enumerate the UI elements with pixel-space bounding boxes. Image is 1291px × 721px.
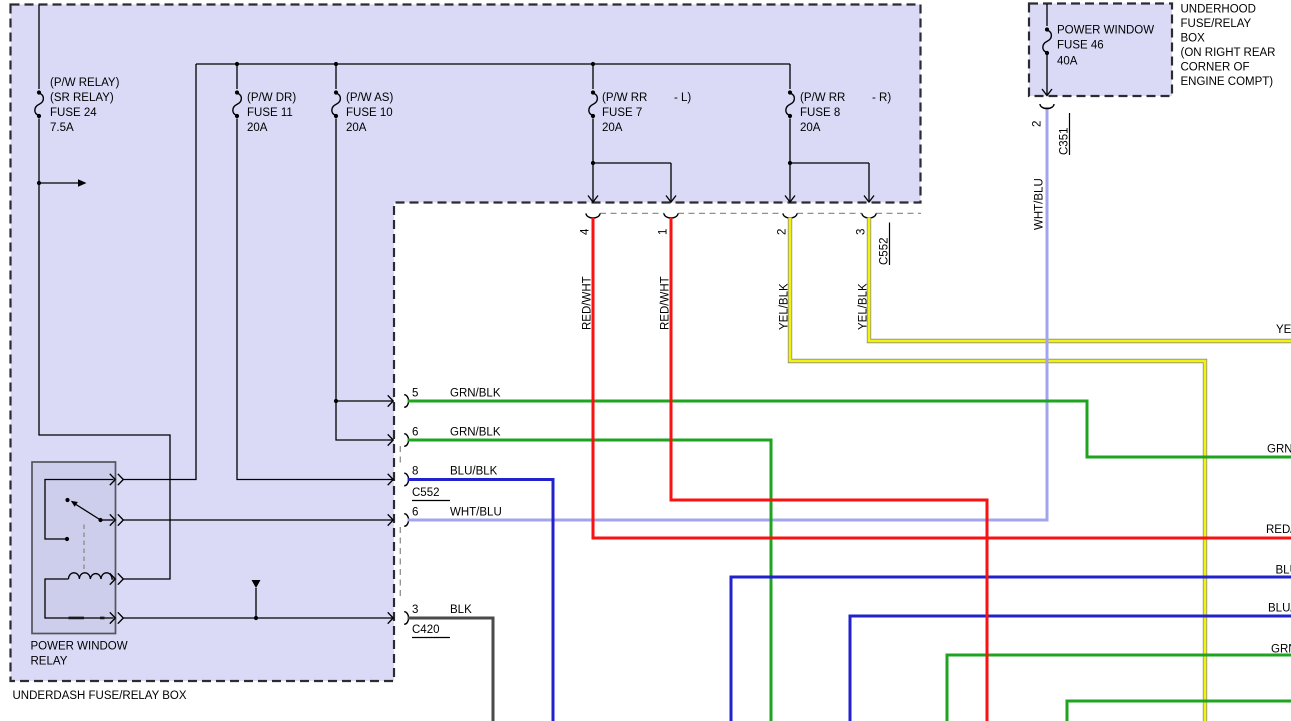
- wire fuse11 top: [236, 64, 238, 89]
- svg-text:POWER WINDOW: POWER WINDOW: [1057, 25, 1154, 37]
- relay contact node (upper): [65, 498, 69, 502]
- svg-text:GRN/BLK: GRN/BLK: [450, 388, 501, 400]
- svg-text:3: 3: [412, 604, 418, 616]
- wire coil return to pin4: [45, 579, 114, 618]
- svg-text:C552: C552: [879, 238, 891, 266]
- svg-text:(P/W RR: (P/W RR: [800, 92, 845, 104]
- relay pin chevrons: [110, 474, 116, 485]
- svg-text:YEL/BLK: YEL/BLK: [1276, 324, 1291, 336]
- svg-text:FUSE 8: FUSE 8: [800, 107, 840, 119]
- underhood fuse/relay box (dashed enclosure): [1029, 4, 1172, 97]
- wire from fuse 24 top: [38, 5, 40, 90]
- svg-text:WHT/BLU: WHT/BLU: [1034, 178, 1046, 230]
- svg-text:- L): - L): [674, 92, 691, 104]
- underdash fuse/relay box (L-shaped dashed enclosure): [11, 5, 921, 682]
- arrows at box bottom edge: [588, 196, 598, 203]
- wire BLU (lower 1): [731, 577, 1291, 721]
- svg-text:FUSE 24: FUSE 24: [50, 107, 97, 119]
- svg-text:POWER WINDOW: POWER WINDOW: [31, 641, 128, 653]
- wire fuse24 down, to coil via right-down: [39, 119, 170, 580]
- svg-text:6: 6: [412, 507, 418, 519]
- connector pin arcs (left): [404, 395, 408, 408]
- node fuse10 branch to pin5: [334, 399, 338, 403]
- node fuse8 branch: [788, 161, 792, 165]
- node junction fuse24 branch: [37, 181, 41, 185]
- wire fuse7 branch to pin1 column: [593, 163, 671, 201]
- relay contact node (lower): [65, 537, 69, 541]
- svg-text:FUSE/RELAY: FUSE/RELAY: [1181, 18, 1252, 30]
- relay switch arm: [76, 505, 101, 521]
- svg-text:3: 3: [856, 229, 868, 235]
- svg-text:FUSE 10: FUSE 10: [346, 107, 393, 119]
- svg-text:20A: 20A: [247, 122, 268, 134]
- wire GRN/BLK pin6: [408, 440, 771, 721]
- svg-text:6: 6: [412, 427, 418, 439]
- svg-text:BLU/BLK: BLU/BLK: [450, 466, 498, 478]
- connector C351 arc: [1040, 104, 1054, 109]
- svg-text:(SR RELAY): (SR RELAY): [50, 92, 114, 104]
- connector pin arcs (top): [586, 213, 600, 218]
- svg-text:FUSE 46: FUSE 46: [1057, 40, 1104, 52]
- svg-text:YEL/BLK: YEL/BLK: [858, 283, 870, 330]
- relay coil L1: [69, 573, 114, 579]
- wire relay pin2 to connector WHT/BLU pin: [124, 519, 393, 521]
- svg-text:(ON RIGHT REAR: (ON RIGHT REAR: [1181, 47, 1276, 59]
- svg-text:C552: C552: [412, 487, 440, 499]
- wire fuse8 down to connector: [789, 119, 791, 201]
- svg-text:(P/W RR: (P/W RR: [602, 92, 647, 104]
- relay internal: contact C-wire: [45, 480, 114, 540]
- fuse F46 wire top: [1046, 4, 1048, 26]
- wire fuse7 top: [592, 64, 594, 89]
- ground reference triangle: [252, 580, 261, 588]
- svg-text:ENGINE COMPT): ENGINE COMPT): [1181, 76, 1274, 88]
- wire WHT/BLU: [408, 107, 1047, 520]
- wire fuse10 to pin 6: [336, 119, 392, 441]
- svg-text:RED/WHT: RED/WHT: [660, 276, 672, 330]
- svg-text:UNDERDASH FUSE/RELAY BOX: UNDERDASH FUSE/RELAY BOX: [13, 690, 187, 702]
- fuse F11 symbol: [233, 90, 242, 118]
- wire fuse10 top: [335, 64, 337, 89]
- svg-text:BOX: BOX: [1181, 33, 1206, 45]
- wire fuse8 top: [789, 64, 791, 89]
- fuse F8 symbol: [786, 90, 795, 118]
- wire BLU/BLK pin8: [408, 480, 553, 721]
- wire branch arrow to other circuit: [39, 182, 79, 184]
- fuse F46 symbol: [1043, 27, 1052, 55]
- wire fuse11 to pin 8: [237, 119, 392, 480]
- power window relay box: [32, 462, 116, 634]
- box edge chevrons at left connector: [388, 395, 394, 406]
- relay common node: [98, 518, 102, 522]
- svg-text:BLU/BLK: BLU/BLK: [1276, 565, 1291, 577]
- svg-text:CORNER OF: CORNER OF: [1181, 62, 1250, 74]
- wire BLU (lower 2): [850, 616, 1291, 721]
- node bus-fuse10: [334, 62, 338, 66]
- wire top bus: [196, 63, 790, 65]
- svg-text:WHT/BLU: WHT/BLU: [450, 507, 502, 519]
- connector C552 top dashed line: [600, 212, 921, 214]
- svg-text:GRN/BLK: GRN/BLK: [1267, 444, 1291, 456]
- svg-text:FUSE 7: FUSE 7: [602, 107, 642, 119]
- svg-text:(P/W DR): (P/W DR): [247, 92, 296, 104]
- svg-text:7.5A: 7.5A: [50, 122, 74, 134]
- wire YEL/BLK pin2: [790, 218, 1205, 721]
- svg-text:BLU/BLK: BLU/BLK: [1268, 603, 1291, 615]
- wire fuse8 branch to pin3 column: [790, 163, 869, 201]
- svg-text:5: 5: [412, 388, 418, 400]
- svg-text:20A: 20A: [346, 122, 367, 134]
- svg-text:YEL/BLK: YEL/BLK: [779, 283, 791, 330]
- svg-text:(P/W RELAY): (P/W RELAY): [50, 77, 120, 89]
- node fuse7 branch: [591, 161, 595, 165]
- wire GRN/BLK pin5: [408, 401, 1291, 457]
- fuse F24 symbol: [35, 90, 44, 118]
- node bus-fuse11: [235, 62, 239, 66]
- svg-text:BLK: BLK: [450, 604, 472, 616]
- node on BLK wire: [254, 616, 258, 620]
- svg-text:20A: 20A: [602, 122, 623, 134]
- svg-text:GRN/BLK: GRN/BLK: [450, 427, 501, 439]
- svg-text:C420: C420: [412, 624, 440, 636]
- svg-text:40A: 40A: [1057, 56, 1078, 68]
- svg-text:UNDERHOOD: UNDERHOOD: [1181, 4, 1256, 16]
- svg-text:- R): - R): [872, 92, 891, 104]
- wire YEL/BLK pin3: [869, 218, 1291, 342]
- svg-text:FUSE 11: FUSE 11: [247, 107, 293, 119]
- svg-text:C351: C351: [1059, 128, 1071, 156]
- svg-text:8: 8: [412, 466, 418, 478]
- wire RED/WHT pin4: [593, 218, 1291, 538]
- svg-text:2: 2: [1032, 121, 1044, 127]
- wire fuse7 down to connector: [592, 119, 594, 201]
- wire RED/WHT pin1: [671, 218, 987, 721]
- wire relay pin4 to connector BLK pin: [124, 617, 393, 619]
- svg-text:4: 4: [580, 228, 592, 235]
- svg-text:RELAY: RELAY: [31, 656, 68, 668]
- wire GRN (lower 2): [1067, 701, 1291, 721]
- relay mechanical link (dashed): [83, 525, 85, 573]
- fuse F7 symbol: [589, 90, 598, 118]
- svg-text:RED/WHT: RED/WHT: [1266, 524, 1291, 536]
- svg-text:GRN/BLK: GRN/BLK: [1271, 644, 1291, 656]
- fuse F10 symbol: [332, 90, 341, 118]
- node bus-fuse7: [591, 62, 595, 66]
- wire BLK pin3: [408, 618, 493, 721]
- wire branch to pin 5: [336, 400, 392, 402]
- svg-text:(P/W AS): (P/W AS): [346, 92, 393, 104]
- svg-text:RED/WHT: RED/WHT: [582, 276, 594, 330]
- wire bus end down to relay pin1: [124, 64, 197, 480]
- connector C552/C420 left dashed line: [399, 446, 401, 600]
- svg-text:20A: 20A: [800, 122, 821, 134]
- svg-text:1: 1: [658, 229, 670, 235]
- wire relay common to pin2: [101, 519, 114, 521]
- svg-text:2: 2: [777, 229, 789, 235]
- fuse F46 wire down: [1046, 55, 1048, 96]
- wire GRN (lower 1): [947, 655, 1291, 721]
